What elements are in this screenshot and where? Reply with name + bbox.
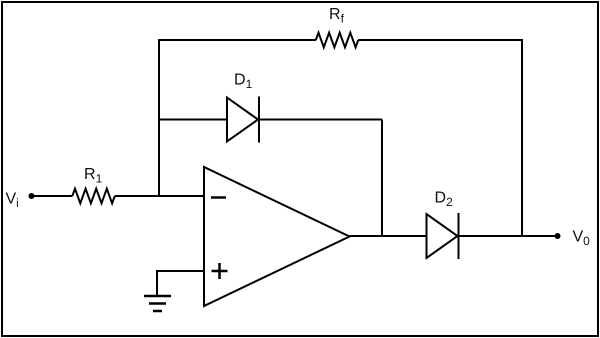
svg-text:D2: D2 — [435, 190, 454, 210]
svg-text:Rf: Rf — [329, 6, 345, 26]
diode D1 — [227, 72, 259, 143]
svg-text:Vi: Vi — [6, 191, 19, 211]
resistor Rf — [316, 6, 359, 47]
node A junction: vertical wire up from input node — [158, 39, 160, 196]
op-amp non-inverting input plus sign — [212, 270, 228, 273]
svg-text:D1: D1 — [234, 72, 253, 92]
node V0 terminal dot — [555, 233, 561, 239]
wire Vi to R1 — [32, 195, 73, 197]
wire D1 cathode to output branch — [259, 119, 382, 121]
diode D2 — [427, 190, 459, 260]
node V0 label — [573, 229, 591, 249]
wire D2 cathode to output terminal — [459, 235, 558, 237]
op-amp U1 — [204, 167, 350, 306]
op-amp inverting input minus sign — [211, 196, 226, 199]
resistor R1 — [72, 166, 115, 203]
wire op-amp output to D2 anode — [350, 235, 427, 237]
wire vertical down from Rf to output node — [521, 39, 523, 236]
node Vi terminal dot — [29, 193, 35, 199]
node Vi label — [6, 191, 19, 211]
wire vertical down from D1 to op-amp output — [381, 120, 383, 237]
ground — [144, 296, 171, 311]
svg-text:V0: V0 — [573, 229, 591, 249]
wire top feedback from node A to Rf — [158, 39, 316, 41]
wire op-amp non-inverting input to ground — [157, 271, 204, 296]
wire R1 to op-amp inverting input — [115, 195, 204, 197]
wire node A to D1 anode — [158, 119, 227, 121]
wire Rf to right vertical — [358, 39, 522, 41]
svg-text:R1: R1 — [84, 166, 103, 186]
